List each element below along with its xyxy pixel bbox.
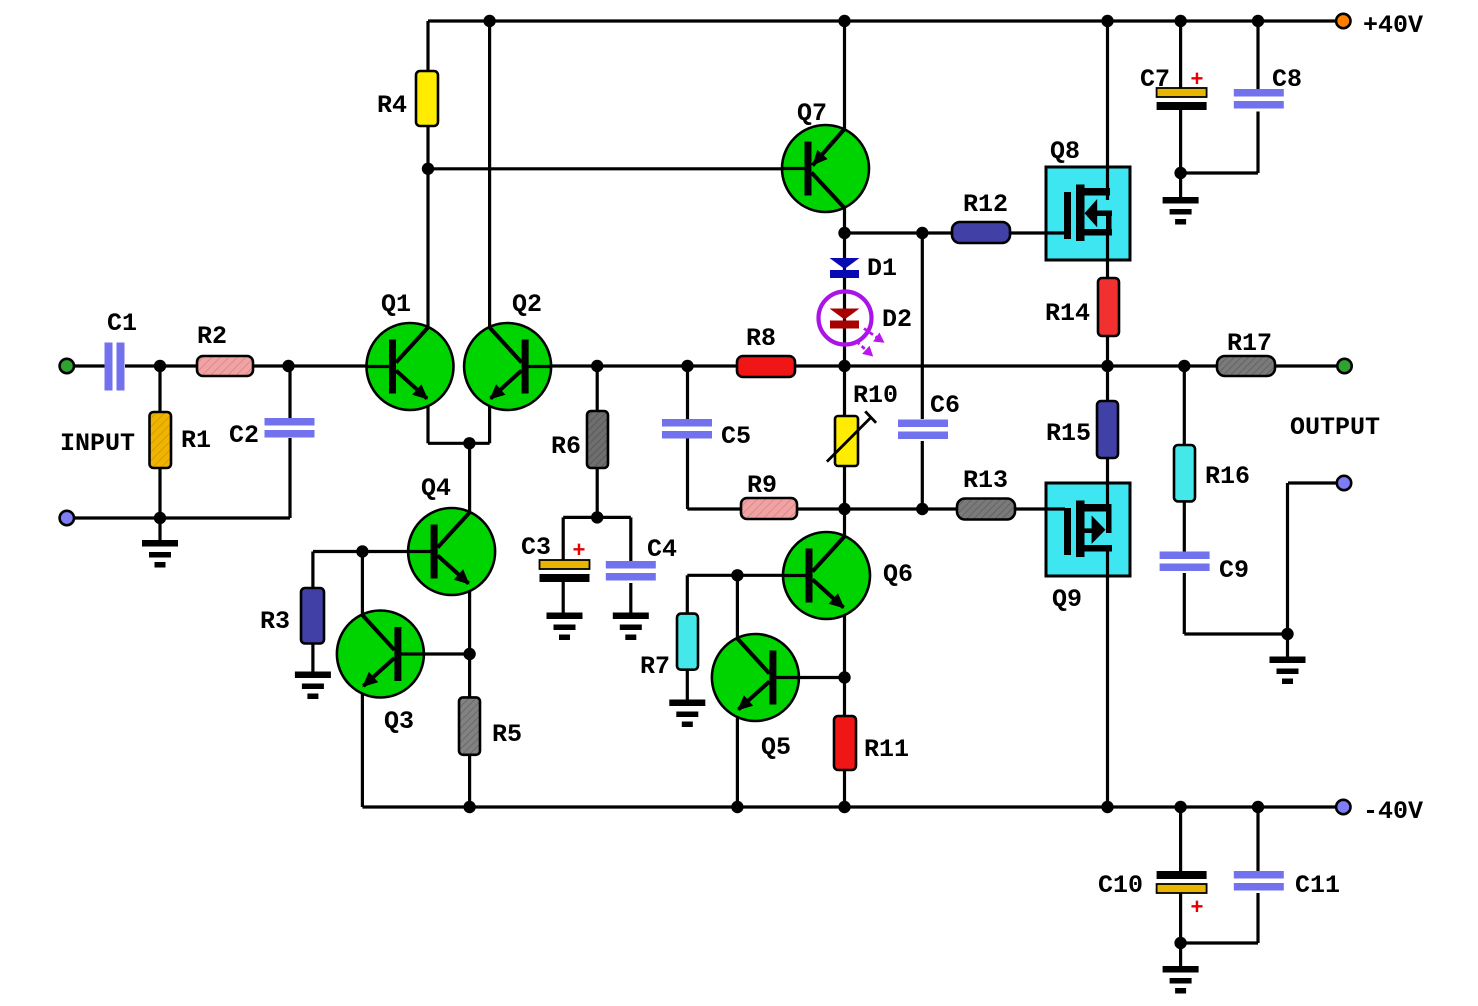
svg-text:R17: R17	[1227, 329, 1272, 358]
svg-text:C3: C3	[521, 533, 551, 562]
svg-text:C9: C9	[1219, 556, 1249, 585]
svg-text:+40V: +40V	[1363, 11, 1423, 40]
svg-text:+: +	[572, 539, 585, 564]
svg-text:D1: D1	[867, 254, 897, 283]
svg-text:C5: C5	[721, 422, 751, 451]
svg-text:Q2: Q2	[512, 290, 542, 319]
svg-text:R13: R13	[963, 466, 1008, 495]
svg-text:C11: C11	[1295, 871, 1340, 900]
svg-text:R10: R10	[853, 381, 898, 410]
svg-text:C10: C10	[1098, 871, 1143, 900]
svg-text:Q7: Q7	[797, 99, 827, 128]
svg-text:Q5: Q5	[761, 733, 791, 762]
svg-text:R7: R7	[640, 652, 670, 681]
svg-text:C7: C7	[1140, 65, 1170, 94]
svg-text:INPUT: INPUT	[60, 429, 135, 458]
svg-text:R12: R12	[963, 190, 1008, 219]
svg-text:R15: R15	[1046, 419, 1091, 448]
svg-text:+: +	[1190, 68, 1203, 93]
svg-text:R3: R3	[260, 607, 290, 636]
svg-text:R5: R5	[492, 720, 522, 749]
svg-text:R2: R2	[197, 322, 227, 351]
svg-text:R9: R9	[747, 471, 777, 500]
svg-text:C4: C4	[647, 535, 677, 564]
svg-text:Q6: Q6	[883, 560, 913, 589]
svg-text:Q1: Q1	[381, 290, 411, 319]
svg-text:C8: C8	[1272, 65, 1302, 94]
svg-text:Q3: Q3	[384, 707, 414, 736]
svg-text:R6: R6	[551, 432, 581, 461]
svg-text:-40V: -40V	[1363, 797, 1423, 826]
svg-text:R16: R16	[1205, 462, 1250, 491]
svg-text:C6: C6	[930, 391, 960, 420]
svg-text:R1: R1	[181, 426, 211, 455]
svg-text:R14: R14	[1045, 299, 1090, 328]
svg-text:+: +	[1190, 896, 1203, 921]
svg-text:R4: R4	[377, 91, 407, 120]
svg-text:Q9: Q9	[1052, 585, 1082, 614]
svg-text:OUTPUT: OUTPUT	[1290, 413, 1380, 442]
svg-text:R11: R11	[864, 735, 909, 764]
svg-text:R8: R8	[746, 324, 776, 353]
svg-text:C2: C2	[229, 421, 259, 450]
svg-text:D2: D2	[882, 305, 912, 334]
svg-text:Q8: Q8	[1050, 137, 1080, 166]
svg-text:Q4: Q4	[421, 474, 451, 503]
svg-text:C1: C1	[107, 309, 137, 338]
